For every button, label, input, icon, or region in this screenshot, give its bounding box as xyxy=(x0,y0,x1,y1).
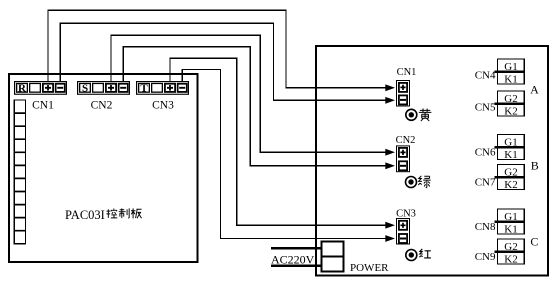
terminal + xyxy=(42,83,54,93)
connector CN3 (left board) xyxy=(136,81,189,112)
svg-text:G2: G2 xyxy=(504,241,517,253)
glyph 控 xyxy=(106,209,117,218)
svg-text:CN4: CN4 xyxy=(475,70,496,82)
glyph 板 xyxy=(131,208,142,218)
svg-text:CN1: CN1 xyxy=(397,67,417,78)
empty terminal xyxy=(92,83,104,93)
wire CN2+ to right CN2+ xyxy=(111,35,387,152)
wire CN2- to right CN2- xyxy=(123,47,386,166)
svg-text:AC220V: AC220V xyxy=(271,252,315,266)
terminal − xyxy=(398,233,408,244)
relay connector CN9 xyxy=(475,239,525,265)
terminal + xyxy=(164,83,176,93)
svg-text:CN8: CN8 xyxy=(475,221,496,233)
wire CN1- to right CN1- xyxy=(60,23,386,100)
terminal R xyxy=(16,83,28,93)
terminal − xyxy=(118,83,129,93)
terminal − xyxy=(398,160,408,171)
power connector xyxy=(322,242,344,272)
empty terminal xyxy=(29,83,41,93)
svg-text:CN2: CN2 xyxy=(396,135,416,146)
terminal + xyxy=(105,83,117,93)
svg-text:K1: K1 xyxy=(504,149,517,161)
svg-text:C: C xyxy=(530,234,538,248)
terminal T xyxy=(138,83,150,93)
connector CN2 (left board) xyxy=(77,81,130,112)
connector CN2 (right box) xyxy=(396,135,416,172)
svg-text:CN7: CN7 xyxy=(475,176,496,188)
empty terminal xyxy=(151,83,163,93)
LED red xyxy=(406,250,417,261)
svg-text:CN5: CN5 xyxy=(475,102,496,114)
terminal S xyxy=(79,83,91,93)
connector CN1 (right box) xyxy=(396,67,416,107)
svg-text:POWER: POWER xyxy=(350,262,389,274)
svg-text:G2: G2 xyxy=(504,167,517,179)
terminal + xyxy=(398,147,408,158)
wire CN3- to right CN3- xyxy=(182,70,386,239)
terminal + xyxy=(398,82,408,93)
relay connector CN5 xyxy=(475,91,525,117)
LED green xyxy=(406,177,417,188)
glyph 红 (red) xyxy=(419,249,431,258)
glyph 黄 (yellow) xyxy=(419,109,432,122)
svg-text:K1: K1 xyxy=(504,73,517,85)
svg-text:R: R xyxy=(18,83,27,95)
svg-text:CN1: CN1 xyxy=(32,100,54,112)
relay connector CN6 xyxy=(475,135,525,161)
AC line wire N xyxy=(271,265,322,267)
svg-text:K2: K2 xyxy=(504,179,517,191)
connector CN1 (left board) xyxy=(14,81,67,112)
svg-text:B: B xyxy=(531,159,539,173)
board label PAC03I控制板 xyxy=(65,208,142,222)
svg-text:CN2: CN2 xyxy=(91,100,113,112)
svg-text:G1: G1 xyxy=(504,211,517,223)
wire CN3+ to right CN3+ xyxy=(170,58,387,225)
glyph 绿 (green) xyxy=(418,176,430,188)
LED yellow xyxy=(406,109,417,120)
svg-text:CN9: CN9 xyxy=(475,251,496,263)
terminal − xyxy=(177,83,188,93)
svg-text:CN6: CN6 xyxy=(475,146,496,158)
svg-text:G1: G1 xyxy=(504,61,517,73)
connector CN3 (right box) xyxy=(396,209,416,245)
wire CN1+ to right CN1+ xyxy=(48,10,387,88)
glyph 制 xyxy=(119,208,129,218)
svg-text:PAC03I: PAC03I xyxy=(65,208,105,222)
svg-text:S: S xyxy=(82,83,88,95)
svg-text:CN3: CN3 xyxy=(396,209,416,220)
terminal + xyxy=(398,220,408,231)
right unit box outline xyxy=(316,46,548,276)
svg-text:CN3: CN3 xyxy=(152,100,174,112)
relay connector CN8 xyxy=(475,209,525,235)
svg-text:A: A xyxy=(530,83,539,97)
svg-text:K1: K1 xyxy=(504,223,517,235)
relay connector CN7 xyxy=(475,165,525,191)
svg-text:G2: G2 xyxy=(504,93,517,105)
svg-text:T: T xyxy=(140,83,148,95)
relay connector CN4 xyxy=(475,59,525,85)
svg-text:K2: K2 xyxy=(504,253,517,265)
terminal − xyxy=(398,95,408,106)
AC line wire L xyxy=(271,247,322,249)
terminal − xyxy=(55,83,66,93)
terminal strip ladder xyxy=(14,100,25,244)
left control board outline xyxy=(9,74,198,262)
svg-text:G1: G1 xyxy=(504,137,517,149)
svg-text:K2: K2 xyxy=(504,105,517,117)
